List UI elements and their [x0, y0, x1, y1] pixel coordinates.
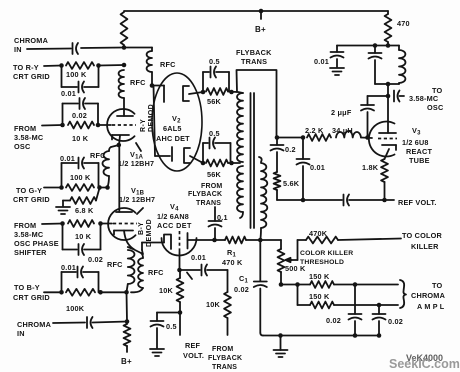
wire 150K lower out	[334, 304, 398, 306]
node RFC V1A label	[130, 78, 146, 87]
svg-text:FROM: FROM	[201, 183, 222, 190]
svg-text:FLYBACK: FLYBACK	[236, 48, 272, 57]
node RFC cathode label	[90, 151, 106, 160]
svg-text:TRANS: TRANS	[212, 364, 237, 371]
resistor 5.6K	[274, 172, 281, 190]
svg-text:B-Y: B-Y	[138, 222, 145, 235]
svg-text:TUBE: TUBE	[409, 156, 430, 165]
node 150K tap junction	[295, 282, 300, 287]
wire flyback core	[251, 93, 255, 228]
svg-text:0.01: 0.01	[310, 163, 325, 172]
svg-text:10K: 10K	[206, 300, 221, 309]
wire tank to osc	[386, 84, 391, 98]
svg-text:COLOR KILLER: COLOR KILLER	[300, 250, 353, 257]
wire to B-Y grid	[44, 291, 62, 293]
node tank right	[386, 43, 391, 48]
node 0.01 top value	[314, 57, 329, 66]
svg-text:FLYBACK: FLYBACK	[188, 191, 222, 198]
svg-text:CHROMA: CHROMA	[17, 320, 52, 329]
node B-Y left	[59, 290, 64, 295]
wire to R-Y grid	[44, 65, 62, 68]
resistor plate-load top-left	[121, 12, 128, 45]
node TO COLOR KILLER label	[402, 231, 443, 251]
svg-text:VOLT.: VOLT.	[183, 351, 204, 360]
node 10K value top	[72, 134, 89, 143]
node 0.01 acc value	[191, 253, 206, 262]
node chroma out junction	[353, 282, 358, 287]
svg-text:CHROMA: CHROMA	[14, 36, 49, 45]
node chroma out junction 2	[377, 303, 382, 308]
svg-text:0.01: 0.01	[61, 263, 76, 272]
node TO 3.58-MC OSC label	[409, 86, 444, 112]
svg-text:TO: TO	[432, 281, 443, 290]
wire V1B cathode curve	[124, 231, 141, 254]
node G-Y right	[97, 185, 102, 190]
capacitor 0.02 out2	[373, 305, 386, 336]
capacitor tank	[369, 46, 382, 85]
wire color killer line	[298, 239, 307, 241]
capacitor 0.5 ref	[151, 313, 181, 349]
tube V3 plate	[379, 132, 396, 134]
node diode1 out	[201, 90, 206, 95]
svg-text:56K: 56K	[207, 170, 222, 179]
capacitor chroma-in bottom	[53, 317, 127, 328]
capacitor 0.01 mid	[297, 138, 310, 201]
node RFC B-Y label	[107, 260, 123, 269]
svg-text:0.01: 0.01	[191, 253, 206, 262]
node pot bottom junction	[279, 282, 284, 287]
capacitor to 3.58 osc	[394, 91, 404, 102]
svg-text:B+: B+	[121, 357, 132, 366]
svg-text:SeekIC.com: SeekIC.com	[389, 357, 460, 371]
node COLOR KILLER THRESHOLD label	[300, 250, 353, 266]
wire 0.01 to 10K right	[227, 270, 229, 292]
svg-text:REACT: REACT	[406, 147, 432, 156]
wire V4 plate feed	[142, 243, 143, 255]
capacitor 0.02 out1	[349, 285, 362, 336]
node TO B-Y label	[13, 283, 50, 302]
wire chroma-in to rail	[81, 47, 152, 50]
node 0.5 top value	[209, 57, 220, 66]
svg-text:FLYBACK: FLYBACK	[208, 355, 242, 362]
resistor 10K V1B	[68, 220, 94, 227]
ground bottom	[274, 350, 288, 357]
svg-text:ACC DET: ACC DET	[157, 221, 192, 230]
node 56K bottom value	[207, 170, 222, 179]
node V2 label	[156, 114, 190, 143]
svg-text:0.02: 0.02	[72, 111, 87, 120]
svg-text:3.58-MC: 3.58-MC	[409, 94, 439, 103]
svg-text:FROM: FROM	[212, 346, 233, 353]
svg-text:0.5: 0.5	[209, 129, 220, 138]
wire shifter to 10K	[42, 223, 63, 226]
node R1 out junction	[258, 238, 263, 243]
svg-text:KILLER: KILLER	[411, 242, 439, 251]
node G-Y left	[59, 185, 64, 190]
svg-text:B+: B+	[255, 25, 266, 34]
resistor 6.8K	[70, 188, 100, 204]
capacitor chroma-in coupling	[27, 43, 78, 54]
svg-text:TO R-Y: TO R-Y	[13, 63, 39, 72]
wire top B+ rail	[124, 10, 388, 12]
node B-Y right	[98, 290, 103, 295]
resistor 1.8K	[381, 159, 388, 182]
tube V1A grid	[98, 124, 136, 126]
wire osc to 10K	[42, 124, 63, 127]
inductor RFC V2-plate	[147, 48, 152, 86]
resistor 10K flyback	[224, 292, 231, 318]
svg-text:470K: 470K	[309, 229, 328, 238]
node 2uuF value	[331, 108, 352, 117]
wire 56K to flyback tap	[228, 161, 240, 166]
svg-text:100 K: 100 K	[66, 70, 87, 79]
wire ref volt stub	[387, 199, 394, 201]
wire G-Y to RFC	[100, 185, 110, 190]
node FROM FLYBACK TRANS mid label	[188, 183, 222, 207]
resistor 150K lower	[298, 302, 335, 309]
node REF VOLT label	[398, 198, 437, 207]
node output brace	[400, 280, 406, 308]
resistor 56K bottom	[206, 160, 228, 167]
node grid junction V3	[365, 135, 370, 140]
resistor 100K B-Y	[66, 289, 95, 296]
node B-Y DEMOD label	[138, 219, 153, 247]
node 0.01 mid value	[310, 163, 325, 172]
wire 500K wiper	[286, 240, 298, 262]
node 0.02-B value	[88, 255, 103, 264]
node ref volt junction	[382, 198, 387, 203]
node tank left	[373, 43, 378, 48]
svg-text:6.8 K: 6.8 K	[75, 206, 94, 215]
node 0.02 out2 value	[388, 317, 403, 326]
inductor RFC V1A plate	[119, 70, 124, 116]
node 10K flyback value	[206, 300, 221, 309]
inductor flyback secondary	[259, 157, 267, 240]
inductor tank	[399, 46, 405, 85]
svg-text:150 K: 150 K	[309, 272, 330, 281]
wire tank bottom	[375, 83, 399, 85]
svg-text:0.5: 0.5	[209, 57, 220, 66]
capacitor 0.01 R-Y	[62, 66, 99, 93]
node 6.8K value	[75, 206, 94, 215]
node RFC V4 label	[148, 268, 164, 277]
wire rail to B+	[126, 292, 129, 321]
node 0.01 B-Y value	[61, 263, 76, 272]
resistor 470 top	[385, 11, 392, 46]
svg-text:TO B-Y: TO B-Y	[14, 283, 40, 292]
wire to G-Y grid	[44, 187, 62, 189]
node 56K top value	[207, 97, 222, 106]
svg-text:0.02: 0.02	[388, 317, 403, 326]
node V3 label	[402, 126, 432, 165]
wire R1 out to pot	[246, 239, 281, 241]
svg-text:RFC: RFC	[90, 151, 106, 160]
node 100K R-Y value	[66, 70, 87, 79]
capacitor 2uuF	[361, 96, 374, 138]
svg-text:0.5: 0.5	[166, 322, 177, 331]
tube V2 diode1 plate	[152, 86, 164, 103]
node 0.01 G-Y value	[60, 154, 75, 163]
node tank bottom	[386, 82, 391, 87]
capacitor 0.1 from flyback	[209, 207, 222, 240]
resistor R1 470K	[225, 237, 246, 244]
svg-text:10 K: 10 K	[75, 232, 92, 241]
tube V4 envelope	[162, 238, 197, 256]
wire killer out	[338, 239, 401, 241]
svg-text:0.01: 0.01	[61, 89, 76, 98]
node CHROMA IN label	[14, 36, 49, 54]
tube V1B cathode	[114, 231, 133, 235]
svg-text:REF VOLT.: REF VOLT.	[398, 198, 437, 207]
wire V2 plates link	[154, 86, 156, 157]
wire flyback loop	[237, 70, 277, 137]
capacitor C1	[254, 240, 267, 336]
capacitor 0.2	[271, 138, 284, 173]
svg-text:1.8K: 1.8K	[362, 163, 379, 172]
wire V1A label arrow	[136, 143, 141, 151]
svg-text:34 μH: 34 μH	[332, 126, 353, 135]
node TO G-Y label	[13, 186, 50, 204]
node 470K killer value	[309, 229, 328, 238]
inductor flyback primary upper	[237, 92, 243, 162]
svg-text:RFC: RFC	[130, 78, 146, 87]
resistor 100K R-Y	[66, 62, 94, 69]
node 500K value	[285, 264, 306, 273]
tube V2 diode2 plate	[155, 147, 172, 161]
node 10K top right	[96, 123, 101, 128]
node 0.2 value	[285, 145, 296, 154]
node 100K G-Y value	[70, 173, 91, 182]
ground G-Y	[56, 207, 70, 214]
wire V1A cathode to V1B plate	[118, 145, 120, 212]
inductor RFC B-Y	[127, 247, 135, 292]
tube V1A cathode	[112, 135, 129, 145]
wire V4 cathode down	[180, 252, 193, 279]
node 2.2K value	[305, 126, 324, 135]
svg-text:0.02: 0.02	[326, 316, 341, 325]
capacitor ref volt	[344, 195, 385, 206]
svg-text:470: 470	[397, 19, 410, 28]
node ground rail junction	[278, 333, 283, 338]
tube V4 plate	[142, 235, 171, 250]
svg-text:100 K: 100 K	[70, 173, 91, 182]
node 34uH value	[332, 126, 353, 135]
node R-Y right	[96, 63, 101, 68]
node ref volt bottom junction	[178, 310, 183, 315]
wire 1.8K to ref	[384, 182, 386, 200]
inductor RFC V4-plate	[131, 253, 143, 292]
svg-text:RFC: RFC	[160, 60, 176, 69]
wire 34uH to V3 grid	[361, 137, 372, 140]
svg-text:100K: 100K	[66, 304, 85, 313]
tube V1B plate	[116, 211, 132, 213]
node FROM 3.58-MC OSC label	[14, 124, 44, 151]
tube V2 diode2 cathode	[184, 148, 203, 163]
node V1A cathode junction	[117, 143, 122, 148]
node 10K top left	[60, 123, 65, 128]
svg-text:0.1: 0.1	[217, 213, 228, 222]
svg-text:470 K: 470 K	[222, 258, 243, 267]
svg-text:AHC DET: AHC DET	[156, 134, 190, 143]
node 1.8K value	[362, 163, 379, 172]
node V4 label	[157, 202, 192, 230]
wire 5.6K to ref line	[276, 190, 278, 200]
node TO R-Y label	[13, 63, 50, 81]
node 0.5 bottom value	[209, 129, 220, 138]
node 0.5 ref value	[166, 322, 177, 331]
node B+ top	[255, 9, 266, 34]
svg-text:5.6K: 5.6K	[283, 179, 300, 188]
resistor 10K ref	[177, 270, 184, 313]
node 10K ref value	[159, 286, 174, 295]
svg-text:10K: 10K	[159, 286, 174, 295]
wire B-Y to rail	[101, 291, 127, 293]
node rail chroma junction	[125, 319, 130, 324]
node C1 label	[234, 274, 249, 294]
node R-Y DEMOD label	[140, 104, 155, 132]
node diode2 out	[201, 161, 206, 166]
svg-text:150 K: 150 K	[309, 292, 330, 301]
wire ref volt line	[277, 199, 342, 201]
svg-text:0.01: 0.01	[314, 57, 329, 66]
node B+ bottom label	[121, 357, 132, 366]
resistor 10K V1A	[68, 122, 94, 129]
svg-text:2 μμF: 2 μμF	[331, 108, 352, 117]
svg-text:IN: IN	[17, 329, 25, 338]
wire tank top	[337, 45, 399, 47]
node 0.1 value	[217, 213, 228, 222]
wire R-Y to rail	[99, 63, 127, 68]
node 10K-B left	[60, 221, 65, 226]
wire 10K flyback lead	[227, 318, 229, 335]
svg-text:SHIFTER: SHIFTER	[14, 248, 47, 257]
tube V3 cathode	[382, 145, 396, 159]
node 0.01 mid junction	[301, 135, 306, 140]
svg-text:0.2: 0.2	[285, 145, 296, 154]
node 470 value	[397, 19, 410, 28]
svg-text:6AL5: 6AL5	[163, 124, 182, 133]
svg-text:1/2 12BH7: 1/2 12BH7	[118, 159, 154, 168]
node 10K-B right	[98, 221, 103, 226]
node 10K-B value	[75, 232, 92, 241]
node R1 label	[222, 248, 243, 267]
capacitor 0.01 B-Y	[62, 267, 99, 293]
svg-text:RFC: RFC	[148, 268, 164, 277]
potentiometer 500K	[278, 240, 285, 285]
svg-text:0.02: 0.02	[88, 255, 103, 264]
capacitor 0.5 top	[203, 67, 229, 93]
wire flyback to 2.2K	[277, 137, 304, 139]
capacitor 0.02 V1B	[63, 224, 101, 256]
svg-text:TO COLOR: TO COLOR	[402, 231, 443, 240]
svg-text:OSC: OSC	[427, 103, 444, 112]
capacitor 0.01 G-Y	[62, 158, 99, 188]
node V1B label	[119, 186, 155, 204]
node B-Y rail junction	[124, 290, 129, 295]
wire B+ stub	[126, 346, 128, 352]
svg-text:10 K: 10 K	[72, 134, 89, 143]
node RFC V2 label	[160, 60, 176, 69]
wire bottom ground rail	[263, 333, 381, 338]
svg-text:FROM: FROM	[14, 124, 36, 133]
tube V1B grid	[101, 223, 138, 225]
node 5.6K value	[283, 179, 300, 188]
inductor flyback primary lower	[237, 166, 243, 218]
resistor 100K G-Y	[66, 184, 94, 191]
svg-text:REF: REF	[185, 341, 201, 350]
wire 150K upper out	[334, 284, 398, 286]
wire V1B label arrow	[137, 208, 143, 214]
wire 6.8K to ground	[63, 201, 70, 207]
wire 150K tap down	[297, 285, 299, 306]
tube V4 screen	[188, 233, 215, 249]
tube V1A envelope	[107, 109, 134, 141]
inductor RFC V1A cathode	[103, 145, 119, 187]
resistor 56K top	[206, 88, 228, 95]
svg-text:TO G-Y: TO G-Y	[16, 186, 42, 195]
svg-text:OSC PHASE: OSC PHASE	[14, 239, 59, 248]
node 0.02 value top	[72, 111, 87, 120]
node 0.02 out1 value	[326, 316, 341, 325]
svg-text:3.58-MC: 3.58-MC	[14, 133, 44, 142]
node REF VOLT bottom label	[183, 341, 204, 360]
ground top right	[330, 68, 344, 75]
node V4 cathode junction	[177, 268, 182, 273]
svg-text:CRT GRID: CRT GRID	[13, 195, 50, 204]
wire ref volt bottom stub	[179, 313, 181, 336]
svg-text:TRANS: TRANS	[196, 200, 221, 207]
capacitor 0.01 gnd top	[331, 46, 344, 68]
node ref-line junction	[301, 198, 306, 203]
wire pot to 150K	[281, 284, 310, 286]
node 150K lower value	[309, 292, 330, 301]
svg-text:CHROMA: CHROMA	[411, 291, 446, 300]
node V1A label	[118, 150, 154, 168]
node chroma-in junction	[122, 45, 127, 50]
svg-text:0.01: 0.01	[60, 154, 75, 163]
svg-text:RFC: RFC	[107, 260, 123, 269]
node FROM FLYBACK TRANS bottom label	[208, 346, 242, 371]
svg-text:A M P L: A M P L	[417, 302, 445, 311]
wire 2uuF top	[368, 95, 389, 97]
node 0.01 R-Y value	[61, 89, 76, 98]
svg-text:CRT GRID: CRT GRID	[13, 293, 50, 302]
tube V1B envelope	[108, 208, 135, 240]
node FROM PHASE SHIFTER label	[14, 221, 59, 257]
svg-text:1/2 12BH7: 1/2 12BH7	[119, 195, 155, 204]
wire 56K to flyback top	[228, 90, 237, 95]
svg-text:IN: IN	[14, 45, 22, 54]
svg-text:R-Y: R-Y	[140, 119, 147, 132]
capacitor 0.02 V1A	[63, 98, 99, 125]
svg-text:FROM: FROM	[14, 221, 36, 230]
svg-text:3.58-MC: 3.58-MC	[14, 230, 44, 239]
tube V3 envelope	[369, 121, 395, 156]
svg-text:56K: 56K	[207, 97, 222, 106]
svg-text:OSC: OSC	[14, 142, 31, 151]
capacitor 0.01 acc	[180, 265, 228, 276]
resistor 2.2K	[307, 134, 331, 141]
resistor B+ bottom	[124, 324, 131, 346]
resistor 470K killer	[306, 237, 338, 244]
svg-text:CRT GRID: CRT GRID	[13, 72, 50, 81]
node CHROMA IN bottom label	[17, 320, 52, 338]
capacitor 0.5 bottom	[203, 138, 231, 164]
tube V2 envelope	[152, 73, 202, 171]
node watermark part number	[406, 353, 443, 363]
svg-text:TRANS: TRANS	[241, 57, 267, 66]
tube V3 grid	[378, 138, 397, 140]
